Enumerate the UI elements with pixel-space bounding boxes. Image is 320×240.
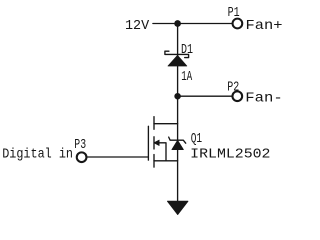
transistor Q1 bulk arrow bbox=[154, 140, 159, 146]
pin P1 bbox=[233, 19, 243, 29]
svg-text:D1: D1 bbox=[181, 42, 193, 58]
diode D1 schottky cathode bar bbox=[165, 51, 189, 57]
svg-text:P2: P2 bbox=[227, 79, 239, 95]
svg-text:Fan-: Fan- bbox=[245, 91, 282, 107]
pin P3 bbox=[77, 152, 87, 162]
wire gate from P3 bbox=[87, 156, 148, 158]
svg-text:P1: P1 bbox=[228, 5, 240, 21]
transistor Q1 channel dash bulk bbox=[153, 137, 155, 149]
svg-text:12V: 12V bbox=[125, 18, 150, 34]
transistor Q1 channel dash drain bbox=[153, 117, 155, 130]
pin P2 bbox=[232, 91, 242, 101]
wire drain line Q1 bbox=[154, 123, 178, 125]
junction dot at Fan- node bbox=[174, 93, 181, 100]
junction dot at 12V rail bbox=[174, 20, 181, 27]
transistor Q1 body diode bar with wings bbox=[169, 137, 186, 143]
wire main vertical net bbox=[177, 24, 179, 202]
wire bulk link Q1 bbox=[159, 143, 166, 161]
svg-text:Fan+: Fan+ bbox=[246, 18, 283, 34]
svg-text:Digital in: Digital in bbox=[2, 147, 73, 163]
wire drain node to P2 bbox=[178, 95, 232, 97]
svg-text:1A: 1A bbox=[181, 69, 192, 85]
transistor Q1 gate bar bbox=[147, 126, 149, 160]
transistor Q1 body diode triangle bbox=[172, 140, 184, 149]
ground symbol bbox=[167, 201, 188, 214]
transistor Q1 channel dash source bbox=[153, 155, 155, 168]
svg-text:Q1: Q1 bbox=[191, 131, 202, 147]
diode D1 schottky triangle bbox=[168, 55, 187, 66]
wire 12V to P1 bbox=[153, 23, 232, 25]
svg-text:P3: P3 bbox=[74, 137, 86, 153]
wire source line Q1 bbox=[154, 160, 178, 162]
svg-text:IRLML2502: IRLML2502 bbox=[190, 146, 270, 162]
